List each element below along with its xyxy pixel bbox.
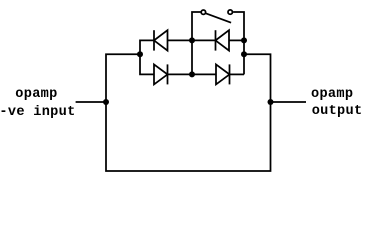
wire: bottom rail left-pair right stub	[168, 73, 193, 75]
wire: top rail right-pair right stub	[229, 39, 244, 41]
wire: top rail left-pair right stub	[168, 39, 193, 41]
junction: left tap node	[137, 51, 143, 57]
diode D4 triangle (bottom-right, cathode right)	[216, 64, 230, 84]
switch SW1 arm	[206, 13, 231, 22]
diode D3 triangle (top-right, cathode left)	[216, 30, 230, 50]
diode D1 cathode bar (top-left)	[153, 30, 155, 50]
wire: left diode-pair rail with top/bottom stubs	[140, 40, 154, 74]
label: opamp -ve input	[0, 87, 76, 120]
wire: opamp -ve input lead	[76, 101, 106, 103]
wire: feedback loop (left tap, down left side, bottom rail, up right side, right tap)	[106, 54, 271, 171]
wire: bottom rail right-pair left stub	[192, 73, 216, 75]
wire: bottom rail right-pair right stub	[230, 73, 245, 75]
diode D1 triangle (top-left, cathode left)	[154, 30, 168, 50]
diode D2 triangle (bottom-left, cathode right)	[154, 64, 168, 84]
diode D4 cathode bar (bottom-right)	[229, 64, 231, 84]
wire: top rail right-pair left stub	[192, 39, 216, 41]
junction: input node	[103, 99, 109, 105]
junction: middle rail top	[189, 37, 195, 43]
junction: output node	[268, 99, 274, 105]
junction: middle rail bottom	[189, 71, 195, 77]
label: opamp output	[311, 87, 362, 119]
svg-text:opamp: opamp	[15, 87, 57, 102]
svg-text:-ve input: -ve input	[0, 105, 76, 120]
svg-text:output: output	[312, 104, 363, 119]
wire: middle vertical rail up to switch corner	[192, 12, 201, 74]
diode D2 cathode bar (bottom-left)	[167, 64, 169, 84]
switch SW1 right lead down to right rail	[233, 12, 244, 40]
wire: right diode-pair rail	[243, 40, 245, 74]
junction: right rail top	[241, 37, 247, 43]
switch SW1 right terminal circle	[228, 10, 232, 14]
switch SW1 left terminal circle	[201, 10, 205, 14]
junction: right tap node	[241, 51, 247, 57]
wire: opamp output lead	[271, 101, 307, 103]
diode D3 cathode bar (top-right)	[215, 30, 217, 50]
svg-text:opamp: opamp	[311, 87, 353, 102]
